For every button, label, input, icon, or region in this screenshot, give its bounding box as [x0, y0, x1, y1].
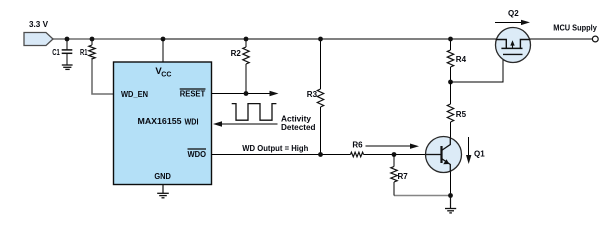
- node R3/rail junction: [318, 37, 323, 42]
- svg-text:Q2: Q2: [508, 9, 519, 18]
- wire gate connector to Q2: [451, 54, 504, 82]
- transistor Q1 (NPN BJT): [426, 137, 462, 173]
- node R1/rail junction: [90, 37, 95, 42]
- svg-text:C1: C1: [52, 48, 60, 57]
- svg-text:R1: R1: [80, 48, 88, 57]
- svg-text:MAX16155: MAX16155: [138, 117, 183, 126]
- svg-text:Q1: Q1: [474, 150, 485, 159]
- capacitor C1: [52, 39, 72, 65]
- node R4/rail junction: [448, 37, 453, 42]
- wire main supply rail (black, VCC node to Q2): [163, 38, 497, 40]
- wire base-drive annotation arrow: [365, 144, 419, 149]
- wire R7 bottom to emitter ground junction (gray): [394, 195, 449, 197]
- node R3/WDO junction: [318, 152, 323, 157]
- node R2/rail junction: [244, 37, 249, 42]
- wire Q1 emitter to ground: [449, 172, 451, 196]
- pin VCC label: [155, 66, 171, 79]
- svg-text:R3: R3: [307, 90, 318, 99]
- terminal MCU Supply: [553, 24, 598, 42]
- svg-text:WDO: WDO: [188, 150, 207, 159]
- power tag 3.3V: [24, 20, 53, 46]
- svg-text:RESET: RESET: [180, 90, 206, 99]
- svg-text:MCU Supply: MCU Supply: [553, 24, 597, 33]
- ground (below Q1 emitter): [445, 196, 456, 213]
- pin WDO label (active-low overline): [188, 149, 207, 159]
- label Q1 with current-direction arrow: [466, 137, 485, 164]
- node C1/rail junction: [65, 37, 70, 42]
- svg-text:GND: GND: [154, 172, 171, 181]
- wire VCC pin stub: [162, 39, 164, 62]
- svg-text:WDI: WDI: [185, 118, 199, 127]
- svg-text:CC: CC: [161, 72, 171, 79]
- node R4/R5/gate junction: [448, 80, 453, 85]
- wire RESET output with arrow: [212, 91, 279, 96]
- pin RESET label (active-low overline): [180, 89, 206, 99]
- wire R6 to Q1 base: [364, 154, 426, 156]
- label Q2 with current-direction arrow: [495, 9, 530, 25]
- ground (below C1): [62, 65, 73, 69]
- wire 3.3V supply rail (gray segment from tag to VCC node): [51, 38, 163, 40]
- svg-text:WD Output = High: WD Output = High: [242, 144, 308, 153]
- node R2/RESET junction: [244, 91, 249, 96]
- wire R1 bottom lead to WD_EN pin (gray): [92, 58, 114, 94]
- node R7/base junction: [392, 152, 397, 157]
- svg-text:R5: R5: [456, 110, 467, 119]
- resistor R3: [307, 39, 324, 155]
- wire Q2 drain to MCU Supply terminal: [529, 38, 592, 40]
- waveform pulse train (watchdog activity): [232, 104, 277, 121]
- ground (below IC GND pin): [157, 185, 169, 198]
- label Activity Detected: [281, 115, 316, 133]
- transistor Q2 (P-channel MOSFET): [496, 28, 531, 63]
- svg-text:WD_EN: WD_EN: [121, 90, 148, 99]
- node VCC/rail junction: [161, 37, 166, 42]
- wire WDO output line: [212, 154, 351, 156]
- resistor R5: [447, 82, 466, 138]
- IC U1 MAX16155: [114, 62, 212, 185]
- node emitter/R7 ground junction: [448, 193, 453, 198]
- svg-text:Detected: Detected: [281, 123, 316, 132]
- resistor R7: [391, 155, 408, 196]
- svg-text:3.3 V: 3.3 V: [29, 20, 49, 29]
- wire WDI input arrow: [213, 121, 278, 126]
- resistor R1: [80, 39, 95, 59]
- resistor R6: [351, 141, 364, 157]
- svg-text:R4: R4: [456, 55, 467, 64]
- resistor R4: [447, 39, 466, 82]
- svg-text:R2: R2: [231, 49, 242, 58]
- svg-text:R7: R7: [398, 172, 409, 181]
- svg-text:R6: R6: [352, 141, 363, 150]
- resistor R2: [231, 39, 250, 94]
